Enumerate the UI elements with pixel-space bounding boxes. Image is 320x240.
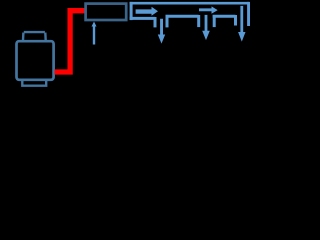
duct top wall [130, 2, 249, 5]
plenum box [86, 4, 127, 20]
duct right end cap wall [247, 2, 250, 26]
branch 1 right wall [166, 15, 169, 28]
duct bottom wall section 3 [213, 15, 236, 18]
down arrow D2 at branch 2 [202, 15, 210, 40]
furnace tank base pedestal [22, 80, 46, 86]
duct bottom wall section 1 [130, 17, 155, 20]
branch 1 left wall [154, 17, 157, 27]
duct bottom wall section 2 [166, 15, 199, 18]
up arrow into plenum [92, 22, 97, 45]
furnace tank lid [23, 32, 46, 40]
end outlet left wall [234, 15, 237, 26]
flow arrow A1 inside duct section 1 [136, 7, 158, 16]
duct left end wall [130, 2, 133, 20]
furnace tank body [17, 41, 54, 80]
down arrow D1 at branch 1 [158, 19, 165, 44]
flow arrow A2 inside duct section 2 [199, 6, 218, 13]
down arrow D3 at duct end outlet [238, 6, 245, 42]
branch 2 right wall [213, 15, 216, 27]
branch 2 left wall [197, 15, 200, 27]
red supply pipe from tank to plenum [55, 11, 85, 72]
